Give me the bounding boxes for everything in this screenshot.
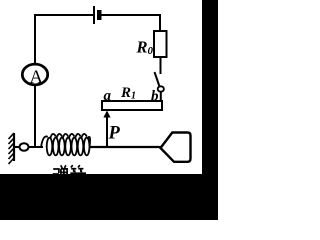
horn shape xyxy=(161,133,191,162)
svg-text:P: P xyxy=(108,124,121,144)
rheostat R1 body xyxy=(102,101,162,110)
char dan: right part top dots xyxy=(61,165,63,168)
char huang: bamboo radical xyxy=(71,165,73,167)
wire top-right horizontal xyxy=(101,14,161,16)
svg-text:b: b xyxy=(151,89,159,105)
spring top arcs xyxy=(41,134,90,148)
wire right vertical to R0 xyxy=(159,14,161,31)
char dan: right part box xyxy=(61,169,67,174)
battery long plate xyxy=(93,6,95,24)
left wire vertical (top to ammeter) xyxy=(34,14,36,65)
wire switch to R1 xyxy=(160,92,162,103)
ammeter A xyxy=(22,64,47,85)
wire ring to spring xyxy=(29,146,43,148)
wall ring terminal xyxy=(20,143,29,151)
left wire vertical (ammeter to bottom) xyxy=(34,85,36,147)
battery short thick plate xyxy=(97,10,102,20)
char huang: top bar of lower part xyxy=(70,172,86,174)
wall vertical line xyxy=(13,133,15,161)
svg-text:A: A xyxy=(29,67,43,88)
wire top-left horizontal xyxy=(35,14,93,16)
resistor R0 body xyxy=(154,31,167,57)
spring text (top of CJK chars, cropped by bar) xyxy=(53,165,84,174)
wiper wire down xyxy=(106,116,108,147)
wire R0 to switch xyxy=(160,57,162,74)
wall hatching xyxy=(9,133,15,164)
switch blade xyxy=(155,72,160,87)
spring coil loops xyxy=(47,138,90,156)
char dan: bow radical top xyxy=(53,169,59,173)
svg-text:a: a xyxy=(104,88,112,104)
wiper arrow head xyxy=(103,111,110,118)
wall stub wire xyxy=(14,146,20,148)
switch pivot circle xyxy=(158,86,164,91)
bottom wire (spring to horn) xyxy=(89,146,161,148)
